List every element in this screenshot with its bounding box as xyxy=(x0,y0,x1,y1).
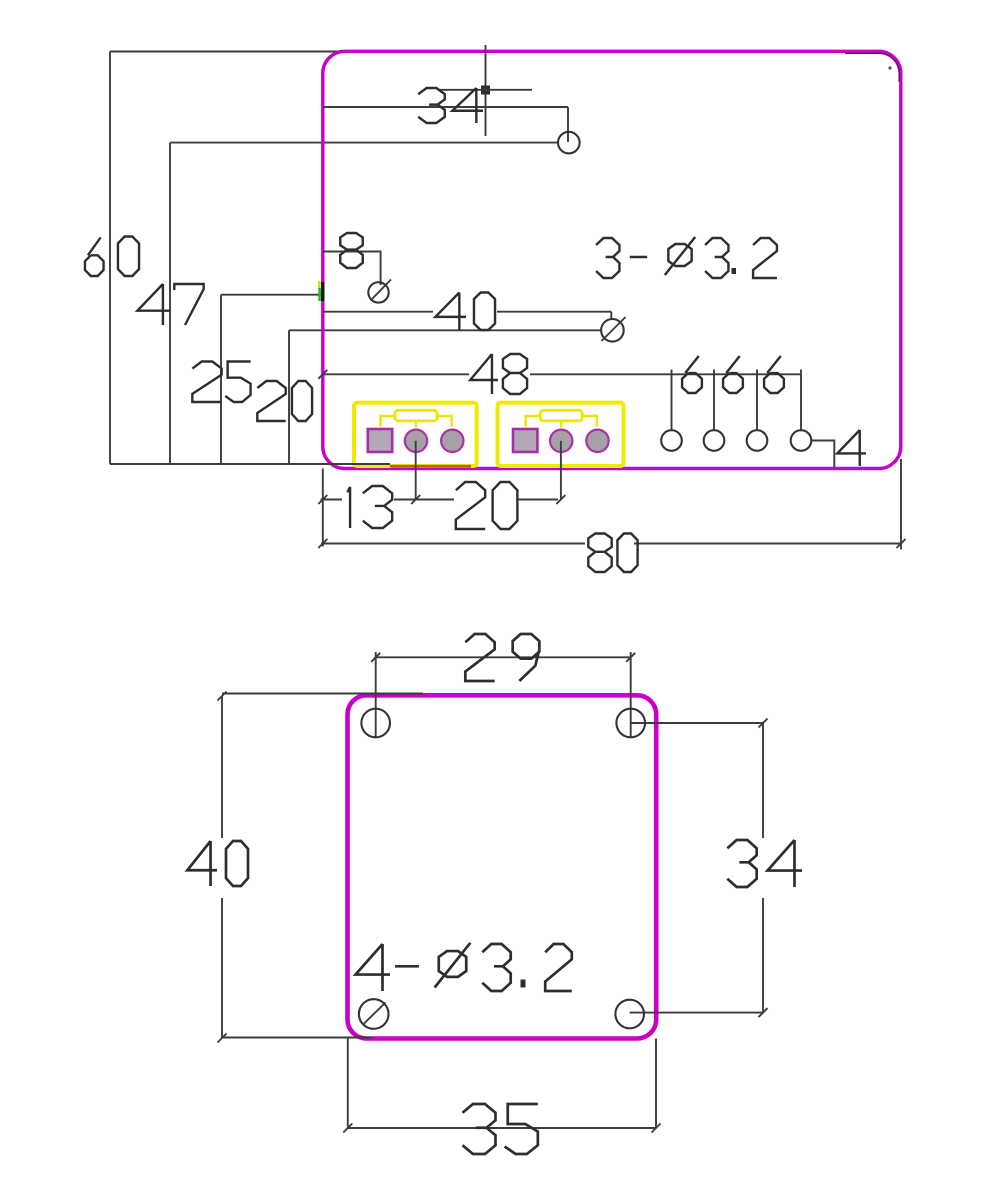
wire: dim-34 top leader xyxy=(631,722,763,724)
wire: dim-4 leader xyxy=(812,441,835,468)
wire: dim-8 bracket xyxy=(323,252,381,286)
wire: dim-29 right extension xyxy=(630,652,632,737)
dimension text 20 (left) xyxy=(257,381,312,421)
wire: dim-35 left extension xyxy=(347,1039,349,1129)
dimension text 47 xyxy=(137,284,203,325)
wire: bottom datum baseline xyxy=(110,463,390,465)
wire: dim-29 left extension xyxy=(375,652,377,737)
wire: dim-25 extension line xyxy=(220,295,222,464)
board outline (bottom view, 35x40) xyxy=(348,695,657,1038)
pitch text 6 (a) xyxy=(682,356,702,393)
pitch text 6 (c) xyxy=(764,356,784,393)
node: hole slash xyxy=(363,1003,386,1026)
wire: dim-40 dimension line left part xyxy=(323,311,433,313)
wire: dim-60 top leader xyxy=(110,51,345,53)
board outline (top view, 80x60) xyxy=(323,51,901,468)
wire: dim-40 left extension line xyxy=(221,696,223,838)
wire: dim-34 extension line xyxy=(762,723,764,838)
wire: dim-80 dimension line xyxy=(321,543,585,545)
wire: dim-20 extension line xyxy=(288,330,290,464)
hole ø3.2 left (8,25) xyxy=(368,282,388,302)
wire: dim-60 extension line xyxy=(109,52,111,465)
wire: dim-80 right extension xyxy=(900,459,902,550)
dimension text 25 xyxy=(192,362,250,403)
dimension text 80 xyxy=(588,534,637,573)
wire: dim-29 dimension line xyxy=(376,656,631,658)
wire: dim-20 leader to hole xyxy=(289,329,601,331)
fuse symbol inside J1 xyxy=(381,410,452,427)
wire: dim-13/20 dimension line xyxy=(321,499,343,501)
wire: dim-47 leader to hole xyxy=(170,142,558,144)
wire: J2 pad2 extension line xyxy=(560,441,562,500)
pin hole 1 xyxy=(661,430,682,451)
node: dark inner arc on top-right corner xyxy=(845,53,899,82)
node: dim-34 datum square marker xyxy=(481,86,490,95)
dimension text 8 xyxy=(340,233,363,268)
fuse symbol inside J2 xyxy=(526,410,597,427)
hole callout text 4-ø3.2 xyxy=(356,943,572,991)
hole callout text 3-ø3.2 xyxy=(596,237,777,278)
pin hole 4 xyxy=(791,430,812,451)
dimension text 40 (bottom view) xyxy=(187,841,248,886)
wire: pin extension line 4 xyxy=(800,370,802,431)
pin hole 2 xyxy=(704,430,725,451)
pad J2 pin3 (round) xyxy=(586,430,608,452)
wire: dim-34 bottom leader xyxy=(630,1012,763,1014)
hole ø3.2 middle (40,20) xyxy=(601,319,624,342)
wire: J1 pad2 extension line xyxy=(415,441,417,500)
hole ø3.2 top-left xyxy=(361,709,390,738)
pad J1 pin1 (square) xyxy=(368,429,392,452)
node: datum baseline orange overlap segment xyxy=(390,465,471,468)
wire: dim-47 extension line xyxy=(169,143,171,464)
node: jpeg speck near top-right corner xyxy=(888,66,891,69)
dimension text 48 xyxy=(470,354,527,394)
dimension text 13 xyxy=(347,486,392,528)
wire: dim-80 left extension xyxy=(322,469,324,547)
node: decimal point of 3.2 xyxy=(521,980,526,988)
pin hole 3 xyxy=(747,430,768,451)
hole ø3.2 top (34,60) xyxy=(558,132,580,154)
wire: dim-40 drop to hole xyxy=(610,312,612,320)
dimension text 40 (middle) xyxy=(435,293,495,331)
wire: pin extension line 2 xyxy=(713,370,715,431)
pitch text 6 (b) xyxy=(723,356,743,393)
node: hole slash xyxy=(371,280,392,301)
wire: dim-40 dimension line right part xyxy=(497,311,611,313)
dimension text 34 (top) xyxy=(418,88,483,123)
dimension text 20 (pads) xyxy=(456,482,518,529)
connector J2 housing (yellow) xyxy=(498,403,624,466)
wire: dim-35 right extension xyxy=(655,1039,657,1129)
hole ø3.2 bottom-right xyxy=(615,1000,644,1029)
dimension text 4 (edge distance) xyxy=(837,430,866,466)
wire: dim-34 dimension line xyxy=(323,106,568,108)
wire: dim-34 centerline xyxy=(485,45,487,136)
dimension text 60 xyxy=(85,237,139,277)
wire: dim-25 leader xyxy=(221,294,323,296)
dimension text 29 xyxy=(465,634,539,681)
wire: pin extension line 3 xyxy=(756,370,758,431)
pad J1 pin2 (round) xyxy=(405,430,427,452)
wire: dim-35 dimension line xyxy=(348,1127,656,1129)
pad J1 pin3 (round) xyxy=(441,430,463,452)
dimension text 34 (bottom view) xyxy=(727,840,802,887)
node: hole slash xyxy=(602,317,626,341)
pad J2 pin2 (round) xyxy=(550,430,572,452)
connector J1 housing (yellow) xyxy=(354,403,477,466)
hole ø3.2 bottom-left xyxy=(359,999,389,1029)
hole ø3.2 top-right xyxy=(616,709,645,738)
node: decimal point of 3.2 xyxy=(732,268,737,274)
wire: dim-34 drop to hole xyxy=(567,107,569,142)
dimension text 35 xyxy=(463,1104,538,1154)
wire: dim-40 top leader xyxy=(222,693,423,695)
wire: dim-40 bottom leader xyxy=(222,1037,372,1039)
wire: pin extension line 1 xyxy=(671,370,673,431)
wire: dim-34 leader upper xyxy=(439,89,532,91)
wire: dim-48 dimension line xyxy=(323,373,469,375)
pad J2 pin1 (square) xyxy=(513,429,537,452)
node: jpeg green streak on left edge xyxy=(319,281,323,301)
